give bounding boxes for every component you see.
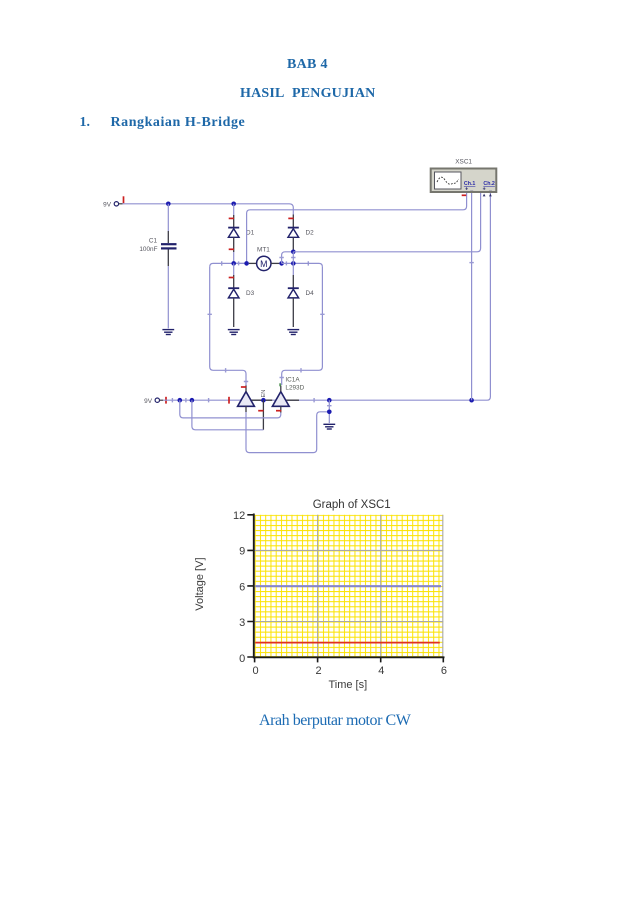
node 9V top supply: [103, 196, 123, 208]
svg-text:3: 3: [239, 617, 245, 629]
svg-text:L293D: L293D: [285, 384, 304, 391]
ground below C1: [162, 330, 174, 335]
wire D4 upper lead: [292, 263, 294, 275]
wire tick marks bottom rail: [172, 398, 314, 402]
svg-text:9V: 9V: [144, 398, 153, 405]
graph major gridline 9V: [255, 549, 444, 551]
wire top 9V rail: [123, 204, 294, 215]
svg-text:_: _: [488, 186, 492, 192]
trace channel B 1.2V red: [255, 642, 440, 644]
wire D2 anode to motor row: [292, 252, 294, 264]
wire scope chA negative down: [471, 192, 473, 400]
node junction rail scope chA negative: [469, 398, 474, 403]
wire motor left lead: [249, 262, 257, 264]
wire riser motor right to scope chB: [282, 252, 294, 264]
wire D3 upper lead: [233, 263, 235, 275]
svg-text:+: +: [465, 187, 468, 193]
pin green dash IC1B top: [279, 383, 281, 386]
graph major gridline 4s: [380, 515, 382, 657]
svg-text:0: 0: [252, 665, 258, 677]
graph x labels: [252, 665, 447, 677]
pin red dash IC1A top: [241, 386, 246, 388]
wire D2 lower lead: [292, 237, 294, 251]
svg-text:D2: D2: [306, 229, 315, 236]
svg-text:6: 6: [239, 582, 245, 594]
wire EN stub down: [262, 400, 264, 430]
svg-text:D3: D3: [246, 290, 255, 297]
node junction rail ground: [327, 398, 332, 403]
diode D4: [288, 288, 314, 298]
svg-text:D4: D4: [306, 290, 315, 297]
graph major gridline 2s: [317, 515, 319, 657]
wire C1 lower lead: [167, 250, 169, 267]
svg-text:C1: C1: [149, 238, 158, 245]
node junction D1-D3 motor row: [231, 261, 236, 266]
heading HASIL PENGUJIAN: [240, 86, 375, 102]
wire left feedback loop to IC1A output: [210, 267, 246, 386]
svg-text:_: _: [469, 186, 473, 192]
node 9V bottom supply: [144, 397, 166, 405]
pin red dash IC1A input: [228, 397, 230, 404]
graph x ticks: [255, 657, 444, 662]
svg-text:9V: 9V: [103, 201, 112, 208]
caption Arah berputar motor CW: [259, 712, 410, 730]
buffer IC1B: [272, 386, 289, 413]
diode D2: [288, 228, 314, 238]
ground below D3: [228, 330, 240, 335]
graph y ticks: [247, 515, 253, 657]
label IC1A L293D: [285, 377, 304, 392]
wire right feedback loop to IC1B output: [282, 267, 323, 385]
wire tick motor row: [222, 261, 309, 265]
wire D3 lower lead: [233, 298, 235, 327]
node junction scope chA motor row: [244, 261, 249, 266]
graph y labels: [233, 510, 245, 665]
oscilloscope XSC1: [431, 159, 497, 193]
pin red dash IC1B output: [276, 410, 281, 412]
node junction motor right: [279, 261, 284, 266]
node junction rail feedback 2: [190, 398, 195, 403]
wire tick left loop: [208, 314, 249, 381]
svg-text:Voltage [V]: Voltage [V]: [194, 557, 206, 610]
pin red dash D1 anode: [229, 248, 234, 250]
svg-text:4: 4: [378, 665, 384, 677]
pin red dash IC1A output: [258, 410, 263, 412]
node junction D2 scope chB: [291, 250, 296, 255]
pin red dash D2 cathode: [288, 217, 293, 219]
wire tick risers: [279, 257, 295, 259]
graph plot area yellow grid: [255, 515, 444, 657]
node junction D1/rail: [231, 202, 236, 207]
wire D4 lower lead: [292, 298, 294, 327]
svg-text:D1: D1: [246, 229, 255, 236]
diode D1: [228, 228, 254, 238]
heading 1. Rangkaian H-Bridge: [80, 115, 91, 131]
svg-text:XSC1: XSC1: [455, 159, 472, 166]
svg-text:2: 2: [316, 665, 322, 677]
wire motor row right segment: [282, 263, 323, 267]
wire motor row left segment: [210, 263, 247, 267]
svg-text:100nF: 100nF: [139, 246, 157, 253]
pin red dash D3 cathode: [229, 277, 234, 279]
graph x axis: [253, 656, 445, 658]
wire bottom 9V rail: [163, 192, 490, 400]
node junction C1/rail: [166, 202, 171, 207]
wire D1 lower lead: [233, 237, 235, 252]
wire feedback 1 to IC1B lower pin: [180, 400, 281, 418]
diode D3: [228, 288, 254, 298]
graph y axis: [253, 514, 255, 659]
capacitor C1: [139, 238, 176, 253]
svg-text:MT1: MT1: [257, 246, 270, 253]
ground below D4: [287, 330, 299, 335]
pin red dash D1 cathode: [229, 217, 234, 219]
svg-text:0: 0: [239, 653, 245, 665]
trace channel A 6V blue: [255, 585, 441, 587]
wire C1 upper lead: [167, 204, 169, 231]
svg-text:Time [s]: Time [s]: [328, 679, 367, 691]
graph major gridline 3V: [255, 621, 444, 623]
node junction D2-D4 motor row: [291, 261, 296, 266]
node junction ground stub: [327, 410, 332, 415]
wire ground stub: [328, 400, 330, 423]
ground bottom right: [323, 424, 335, 429]
motor MT1: [257, 246, 271, 270]
wire tick right loop: [280, 314, 325, 377]
svg-text:+: +: [483, 187, 486, 193]
wire tick chA negative: [469, 262, 473, 264]
svg-text:IC1A: IC1A: [285, 377, 300, 384]
wire feedback 2 to EN stub: [192, 400, 264, 430]
node junction between buffers: [261, 398, 266, 403]
wire buffer output dark leads: [250, 399, 299, 401]
svg-text:6: 6: [441, 665, 447, 677]
graph right border: [442, 515, 444, 657]
wire oscilloscope channel A probe to motor left node: [247, 192, 467, 263]
svg-text:Graph of XSC1: Graph of XSC1: [313, 499, 391, 511]
wire motor right lead: [271, 262, 279, 264]
wire D2 upper lead: [292, 215, 294, 228]
svg-text:9: 9: [239, 546, 245, 558]
svg-text:M: M: [260, 259, 267, 269]
svg-text:12: 12: [233, 510, 245, 522]
wire D1 upper lead: [233, 204, 235, 215]
svg-text:EN: EN: [261, 390, 267, 398]
pin arrowheads scope chB: [483, 194, 492, 197]
node junction rail feedback 1: [178, 398, 183, 403]
pin red dash scope chA positive: [462, 194, 467, 196]
wire oscilloscope channel B probe: [293, 192, 480, 252]
wire IC1A lower pin long loop to ground node: [246, 412, 329, 453]
heading BAB 4: [287, 57, 328, 73]
wire tick ground stub: [327, 405, 331, 407]
buffer IC1A: [238, 386, 255, 413]
